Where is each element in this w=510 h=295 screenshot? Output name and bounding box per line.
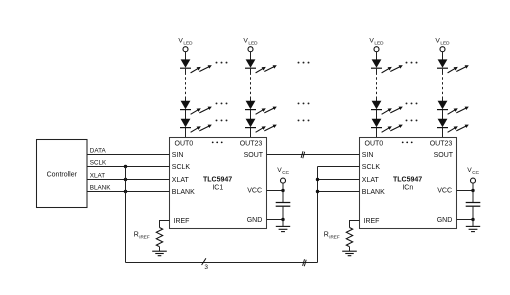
- wire SCLK to ICn: [318, 166, 360, 168]
- svg-text:OUT0: OUT0: [175, 140, 194, 147]
- LED (string 2 top): [245, 59, 256, 68]
- svg-text:IREF: IREF: [329, 235, 340, 240]
- VCC supply terminal (ICn): [467, 167, 479, 183]
- svg-text:BLANK: BLANK: [90, 185, 111, 192]
- wire dashed string-continues (string 1): [185, 69, 187, 101]
- capacitor bypass (IC1): [276, 203, 291, 207]
- light emission arrows (string 2 middle): [256, 107, 277, 115]
- svg-text:LED: LED: [248, 41, 258, 46]
- svg-text:OUT0: OUT0: [365, 140, 384, 147]
- wire between LEDs (string 2): [250, 110, 252, 119]
- wire break on bottom bus: [303, 259, 307, 266]
- resistor RIREF (IC1): [156, 228, 162, 247]
- svg-text:GND: GND: [437, 217, 453, 224]
- wire VCC to capacitor (IC1): [282, 191, 284, 203]
- svg-text:XLAT: XLAT: [172, 177, 190, 184]
- svg-text:R: R: [134, 232, 139, 239]
- svg-text:VCC: VCC: [247, 188, 262, 195]
- svg-text:IREF: IREF: [364, 218, 380, 225]
- svg-text:XLAT: XLAT: [90, 173, 105, 180]
- wire VCC pin stub (IC1): [267, 190, 284, 192]
- svg-text:SOUT: SOUT: [434, 152, 454, 159]
- svg-text:OUT23: OUT23: [430, 140, 453, 147]
- wire BLANK: [87, 191, 170, 193]
- LED (string 3 top): [371, 59, 382, 68]
- wire DATA: [87, 154, 170, 156]
- junction bus tap at y=166.5: [124, 165, 127, 168]
- junction bus tap at y=191.5: [124, 190, 127, 193]
- wire between LEDs (string 1): [185, 110, 187, 119]
- light emission arrows (string 1 middle): [191, 107, 212, 115]
- LED (string 1 bottom): [180, 119, 191, 128]
- capacitor bypass (ICn): [466, 203, 481, 207]
- wire RIREF to ground (ICn): [349, 247, 351, 252]
- LED (string 2 bottom): [245, 119, 256, 128]
- light emission arrows (string 3 middle): [382, 107, 403, 115]
- light emission arrows (string 3 top): [382, 65, 403, 73]
- ellipsis OUT pins (IC1): [212, 142, 223, 144]
- svg-text:IC1: IC1: [212, 184, 223, 191]
- svg-text:LED: LED: [374, 41, 384, 46]
- wire left bus vertical: [125, 167, 127, 263]
- wire to ground symbol (IC1): [282, 220, 284, 227]
- light emission arrows (string 2 bottom): [256, 125, 277, 133]
- LED (string 4 bottom): [437, 119, 448, 128]
- light emission arrows (string 1 bottom): [191, 125, 212, 133]
- ellipsis: more LED strings (right of string 2): [298, 62, 310, 122]
- svg-text:SCLK: SCLK: [362, 164, 381, 171]
- wire VCC terminal down (ICn): [472, 183, 474, 191]
- IC IC1 TLC5947 box: [170, 138, 267, 229]
- svg-text:CC: CC: [472, 170, 479, 175]
- wire LED string to OUT pin (string 1): [185, 128, 187, 138]
- wire VLED to top LED (string 4): [442, 52, 444, 60]
- resistor RIREF (ICn): [346, 228, 352, 247]
- wire VLED to top LED (string 1): [185, 52, 187, 60]
- svg-text:LED: LED: [183, 41, 193, 46]
- wire VLED to top LED (string 2): [250, 52, 252, 60]
- LED (string 4 middle): [437, 101, 448, 110]
- svg-text:SOUT: SOUT: [244, 152, 264, 159]
- svg-text:TLC5947: TLC5947: [393, 177, 422, 184]
- wire GND pin stub (ICn): [457, 219, 474, 221]
- wire RIREF to ground (IC1): [159, 247, 161, 252]
- bus width slash: [202, 258, 206, 265]
- value label RIREF (IC1): [134, 232, 150, 240]
- ground below RIREF (IC1): [152, 251, 167, 256]
- svg-text:BLANK: BLANK: [172, 189, 195, 196]
- wire LED string to OUT pin (string 3): [376, 128, 378, 138]
- wire IREF pin to RIREF (IC1): [160, 221, 170, 228]
- VCC supply terminal (IC1): [277, 167, 289, 183]
- wire between LEDs (string 4): [442, 110, 444, 119]
- junction GND (ICn): [471, 218, 474, 221]
- wire to ground symbol (ICn): [472, 220, 474, 227]
- ground symbol (ICn): [466, 226, 480, 231]
- IC ICn TLC5947 box: [360, 138, 457, 229]
- LED (string 1 top): [180, 59, 191, 68]
- light emission arrows (string 4 top): [448, 65, 469, 73]
- junction VCC (ICn): [471, 189, 474, 192]
- VLED supply terminal (string 1): [178, 38, 193, 52]
- LED (string 2 middle): [245, 101, 256, 110]
- light emission arrows (string 2 top): [256, 65, 277, 73]
- svg-text:BLANK: BLANK: [362, 189, 385, 196]
- junction bus tap at y=179.5: [124, 178, 127, 181]
- svg-text:GND: GND: [247, 217, 263, 224]
- VLED supply terminal (string 3): [369, 38, 384, 52]
- svg-text:IREF: IREF: [174, 218, 190, 225]
- VLED supply terminal (string 4): [435, 38, 450, 52]
- junction VCC (IC1): [281, 189, 284, 192]
- ellipsis OUT pins (ICn): [402, 142, 413, 144]
- LED (string 1 middle): [180, 101, 191, 110]
- wire LED string to OUT pin (string 2): [250, 128, 252, 138]
- svg-text:SIN: SIN: [362, 152, 374, 159]
- light emission arrows (string 3 bottom): [382, 125, 403, 133]
- svg-text:SIN: SIN: [172, 152, 184, 159]
- svg-text:R: R: [324, 232, 329, 239]
- svg-text:SCLK: SCLK: [172, 164, 191, 171]
- LED (string 4 top): [437, 59, 448, 68]
- svg-text:ICn: ICn: [402, 184, 413, 191]
- junction ICn bus BLANK: [316, 190, 319, 193]
- ellipsis: more LED strings (between strings 3-4): [406, 62, 418, 122]
- controller box: [37, 140, 88, 208]
- svg-text:VCC: VCC: [437, 188, 452, 195]
- ellipsis: more LED strings (between strings 1-2): [216, 62, 228, 122]
- svg-text:DATA: DATA: [90, 148, 107, 155]
- wire dashed string-continues (string 2): [250, 69, 252, 101]
- svg-text:OUT23: OUT23: [240, 140, 263, 147]
- wire GND pin stub (IC1): [267, 219, 284, 221]
- wire capacitor to GND (IC1): [282, 206, 284, 219]
- svg-text:Controller: Controller: [47, 171, 78, 178]
- VLED supply terminal (string 2): [243, 38, 258, 52]
- wire VLED to top LED (string 3): [376, 52, 378, 60]
- light emission arrows (string 1 top): [191, 65, 212, 73]
- svg-text:IREF: IREF: [139, 235, 150, 240]
- wire VCC to capacitor (ICn): [472, 191, 474, 203]
- wire capacitor to GND (ICn): [472, 206, 474, 219]
- wire bottom bus horizontal: [126, 262, 318, 264]
- svg-text:LED: LED: [440, 41, 450, 46]
- wire dashed string-continues (string 4): [442, 69, 444, 101]
- LED (string 3 middle): [371, 101, 382, 110]
- svg-text:SCLK: SCLK: [90, 160, 107, 167]
- wire break on daisy chain: [301, 151, 305, 158]
- svg-text:3: 3: [204, 264, 208, 271]
- junction GND (IC1): [281, 218, 284, 221]
- junction ICn bus XLAT: [316, 178, 319, 181]
- svg-text:CC: CC: [282, 170, 289, 175]
- svg-text:TLC5947: TLC5947: [203, 177, 232, 184]
- wire SOUT IC1 to SIN ICn (daisy chain): [267, 154, 360, 156]
- wire LED string to OUT pin (string 4): [442, 128, 444, 138]
- svg-text:XLAT: XLAT: [362, 177, 380, 184]
- wire right bus vertical to ICn: [317, 167, 319, 263]
- value label RIREF (ICn): [324, 232, 340, 240]
- LED (string 3 bottom): [371, 119, 382, 128]
- ground below RIREF (ICn): [342, 251, 357, 256]
- light emission arrows (string 4 bottom): [448, 125, 469, 133]
- ground symbol (IC1): [276, 226, 290, 231]
- wire between LEDs (string 3): [376, 110, 378, 119]
- wire XLAT to ICn: [318, 179, 360, 181]
- wire XLAT: [87, 179, 170, 181]
- wire SCLK: [87, 166, 170, 168]
- wire IREF pin to RIREF (ICn): [350, 221, 360, 228]
- wire VCC pin stub (ICn): [457, 190, 474, 192]
- wire VCC terminal down (IC1): [282, 183, 284, 191]
- light emission arrows (string 4 middle): [448, 107, 469, 115]
- wire dashed string-continues (string 3): [376, 69, 378, 101]
- wire BLANK to ICn: [318, 191, 360, 193]
